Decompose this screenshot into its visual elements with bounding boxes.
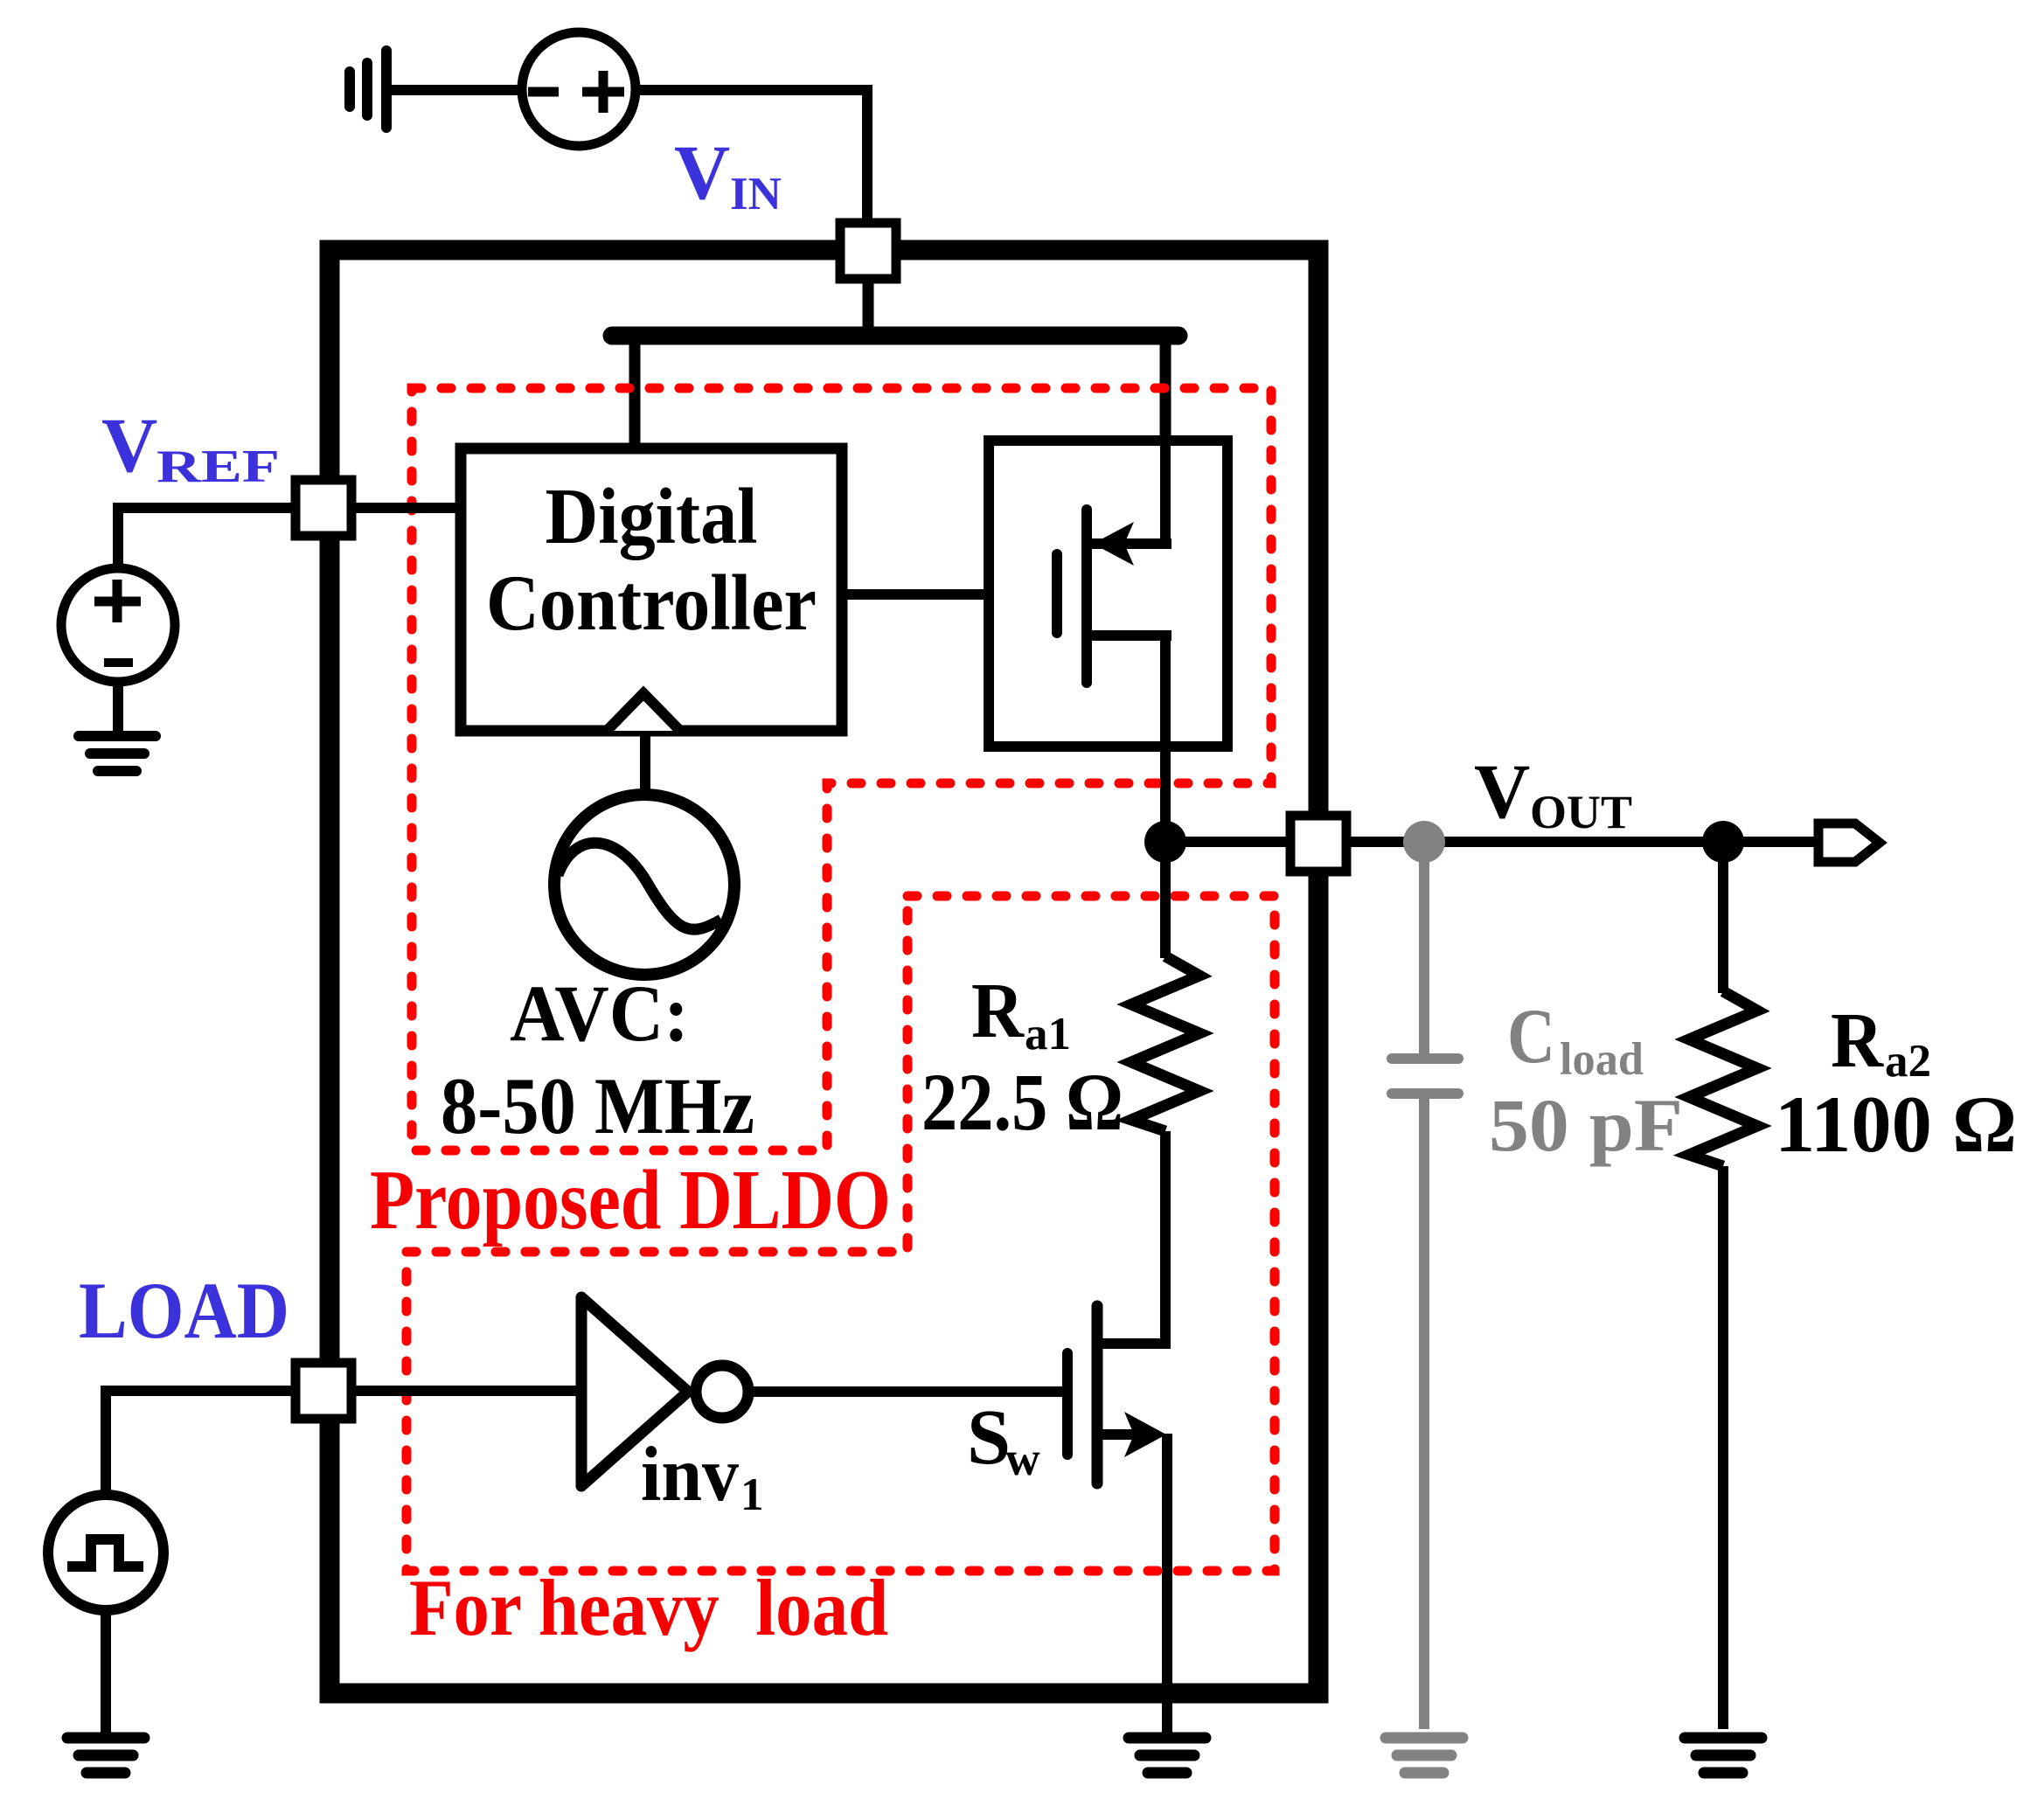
svg-text:REF: REF <box>156 441 280 492</box>
wire inverter to switch gate <box>748 1386 1067 1397</box>
pulse source (load stimulus) <box>48 1495 163 1610</box>
wire VIN port to supply rail <box>863 279 874 336</box>
pass transistor M1 (PMOS) box <box>989 441 1227 747</box>
wire Digital Controller to AVC oscillator <box>640 731 650 797</box>
wire switch Sw source to ground <box>1162 1434 1172 1733</box>
ground GND (top-left, sideways) <box>350 51 386 128</box>
clock input triangle on Digital Controller <box>607 693 680 731</box>
ground GND (below pulse source) <box>67 1738 144 1773</box>
wire capacitor Cload to ground <box>1419 1098 1429 1729</box>
svg-text:AVC:: AVC: <box>510 969 689 1058</box>
ground GND (below VREF source) <box>79 736 156 771</box>
svg-text:Proposed DLDO: Proposed DLDO <box>370 1153 891 1247</box>
voltage source VREF (+ -) <box>61 568 175 682</box>
wire VREF source to ground <box>113 682 123 733</box>
wire node to resistor Ra2 <box>1718 842 1728 993</box>
svg-text:w: w <box>1005 1432 1040 1485</box>
wire VOUT node to port <box>1165 837 1290 847</box>
svg-text:OUT: OUT <box>1530 786 1632 838</box>
svg-text:50 pF: 50 pF <box>1489 1083 1683 1167</box>
transistor Sw (NMOS switch) <box>1067 1306 1166 1483</box>
node Cload junction dot (gray) <box>1403 821 1445 863</box>
ground GND (below Sw) <box>1129 1738 1206 1773</box>
inverter inv1 <box>581 1297 748 1486</box>
resistor Ra1 <box>1131 956 1199 1131</box>
wire LOAD port to inverter <box>351 1386 580 1396</box>
capacitor Cload <box>1392 1059 1458 1094</box>
dashed box For heavy load <box>407 896 1275 1571</box>
svg-text:Controller: Controller <box>486 559 817 647</box>
voltage source VIN (- +) <box>522 32 636 146</box>
wire VREF port to source <box>118 508 295 570</box>
wire supply rail <box>612 327 1178 345</box>
wire VIN source to VIN port <box>636 90 867 220</box>
svg-text:Digital: Digital <box>546 472 758 560</box>
port VIN (square on top edge) <box>840 223 896 279</box>
block Digital Controller U1 <box>461 448 842 731</box>
wire to capacitor Cload <box>1419 842 1429 1054</box>
wire Digital Controller to pass transistor gate <box>842 589 989 600</box>
svg-text:V: V <box>674 130 730 216</box>
svg-text:C: C <box>1507 994 1555 1080</box>
svg-text:8-50 MHz: 8-50 MHz <box>441 1061 754 1150</box>
svg-text:For heavy load: For heavy load <box>409 1563 888 1652</box>
node Ra2 junction dot <box>1702 821 1744 863</box>
chip boundary rectangle <box>330 250 1318 1693</box>
wire pass transistor to VOUT node <box>1160 747 1171 842</box>
wire VREF port to Digital Controller <box>351 503 461 513</box>
port LOAD (square on left edge) <box>295 1363 351 1419</box>
dashed box Proposed DLDO <box>412 388 1271 1150</box>
oscillator AVC <box>554 795 734 975</box>
wire VOUT port to output pin <box>1346 837 1827 847</box>
node VOUT junction dot <box>1144 821 1186 863</box>
port VREF (square on left edge) <box>295 480 351 536</box>
svg-text:R: R <box>971 968 1025 1054</box>
svg-text:22.5 Ω: 22.5 Ω <box>921 1058 1123 1148</box>
wire ground to VIN source <box>390 85 521 95</box>
output pin VOUT <box>1818 823 1880 862</box>
wire rail to pass transistor drain <box>1160 336 1171 541</box>
wire LOAD port to pulse source <box>106 1391 295 1491</box>
svg-text:V: V <box>1474 749 1530 835</box>
svg-text:load: load <box>1560 1034 1644 1085</box>
wire resistor Ra1 to switch Sw drain <box>1099 1131 1165 1344</box>
transistor M1 symbol <box>1057 441 1171 747</box>
resistor Ra2 <box>1689 991 1757 1166</box>
svg-text:R: R <box>1831 997 1884 1084</box>
svg-text:a1: a1 <box>1025 1009 1071 1059</box>
ground GND (below Ra2) <box>1685 1738 1762 1773</box>
svg-text:1: 1 <box>740 1469 764 1520</box>
wire VOUT node to resistor Ra1 <box>1160 842 1171 958</box>
wire resistor Ra2 to ground <box>1718 1166 1728 1729</box>
svg-text:LOAD: LOAD <box>79 1266 289 1355</box>
svg-text:inv: inv <box>641 1432 739 1518</box>
wire rail to Digital Controller <box>629 336 641 448</box>
svg-text:V: V <box>101 403 157 489</box>
svg-text:S: S <box>967 1394 1011 1481</box>
ground GND (below Cload, gray) <box>1386 1738 1463 1773</box>
svg-text:IN: IN <box>730 169 782 219</box>
svg-text:1100 Ω: 1100 Ω <box>1775 1080 2017 1169</box>
port VOUT (square on right edge) <box>1290 816 1346 872</box>
wire pulse source to ground <box>101 1610 111 1733</box>
